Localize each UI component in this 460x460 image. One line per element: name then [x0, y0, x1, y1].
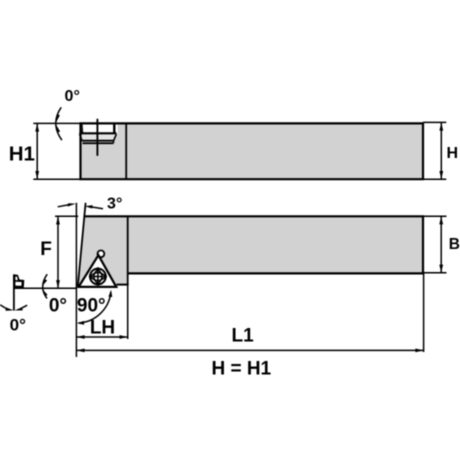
insert chamfer tick left — [81, 125, 84, 133]
stick-out icon: inner notch — [15, 277, 17, 281]
clamp screw: horizontal lens — [90, 272, 106, 280]
3 deg left arrow — [68, 203, 76, 206]
L1 arrow left — [76, 349, 84, 353]
3 deg right arrow — [85, 205, 93, 208]
LH arrow right — [120, 335, 128, 339]
insert chamfer tick right — [113, 125, 115, 133]
F arrow down — [56, 280, 60, 288]
LH arrow left — [76, 335, 84, 339]
head body — [78, 216, 128, 286]
pocket floor line — [83, 142, 114, 144]
B top extension line — [423, 215, 447, 217]
svg-text:0°: 0° — [49, 295, 67, 316]
svg-text:B: B — [449, 236, 460, 253]
90 deg arrow at left end — [77, 321, 84, 325]
head bottom edge — [117, 284, 129, 286]
clamp screw: vertical lens — [94, 269, 102, 283]
tip radius circle — [98, 250, 105, 257]
B dimension line — [440, 216, 442, 273]
centerline of insert screw — [96, 119, 98, 156]
svg-text:L1: L1 — [232, 326, 255, 347]
tip vertical extension line — [75, 216, 77, 357]
head/shank divider line — [125, 123, 127, 179]
H dimension line — [440, 122, 442, 179]
H arrow up — [439, 122, 443, 130]
tip reference line (thin, to the left) — [14, 287, 77, 289]
bar outline — [81, 123, 424, 179]
svg-text:H1: H1 — [9, 143, 35, 166]
insert pocket white area — [79, 124, 117, 143]
svg-text:0°: 0° — [65, 88, 80, 105]
shank outline — [84, 216, 423, 273]
H1 dimension: top extension line — [33, 122, 80, 124]
L1 dimension line — [76, 349, 423, 351]
svg-text:3°: 3° — [107, 196, 122, 213]
H dimension: top extension line — [423, 121, 446, 123]
H arrow down — [439, 171, 443, 179]
stick-out icon: left arrow — [5, 308, 13, 311]
90 deg arrow at top — [109, 290, 113, 297]
clamp screw: horizontal axis — [89, 276, 107, 278]
insert side view: right side — [114, 124, 116, 134]
H1 dimension: bottom extension line — [33, 178, 80, 180]
H1 dimension line — [36, 123, 38, 179]
head front (slanted) edge — [78, 203, 86, 287]
0 deg arc — [56, 107, 62, 140]
shank body — [128, 216, 423, 273]
shim right slant — [114, 134, 117, 141]
0 deg arc arrow upper — [43, 279, 47, 285]
0 deg arc arrow lower — [56, 125, 60, 133]
stick-out icon: right arrow — [15, 307, 23, 310]
insert (triangle) — [79, 255, 117, 287]
svg-text:0°: 0° — [10, 316, 26, 335]
clamp screw: vertical axis — [97, 267, 99, 286]
F dimension line — [57, 216, 59, 288]
head end / divider — [127, 216, 129, 285]
svg-text:90°: 90° — [77, 296, 106, 317]
pocket floor right connector — [113, 141, 115, 144]
3 deg left extension (vertical ref) — [75, 203, 77, 217]
0 deg (inclination) arc — [43, 274, 48, 298]
L1 arrow right — [415, 349, 423, 353]
H dimension: bottom extension line — [423, 178, 446, 180]
3 deg left leader — [58, 205, 70, 207]
clamp screw: outer circle — [90, 269, 106, 285]
H1 arrow down — [35, 171, 39, 179]
stick-out icon: profile shape — [14, 274, 25, 288]
stick-out icon: stem — [13, 274, 15, 310]
stick-out icon: right leader — [22, 305, 28, 308]
shim bottom line — [82, 140, 114, 142]
stick-out icon: left leader — [0, 305, 7, 309]
holder bar body (side view) — [81, 123, 424, 179]
0 deg arc arrow lower — [43, 290, 48, 297]
svg-text:H = H1: H = H1 — [211, 359, 271, 380]
90 deg arc — [79, 292, 111, 323]
H1 arrow up — [35, 123, 39, 131]
svg-text:LH: LH — [90, 317, 115, 338]
B arrow down — [439, 265, 443, 273]
F top extension line — [55, 215, 78, 217]
svg-text:H: H — [447, 145, 459, 162]
F arrow up — [56, 216, 60, 224]
insert side view: left side — [80, 124, 81, 134]
insert bottom edge — [79, 132, 116, 134]
svg-text:F: F — [40, 239, 52, 260]
3 deg right leader — [91, 207, 103, 209]
0 deg arc arrow upper — [56, 114, 60, 123]
shim left slant — [80, 134, 82, 141]
LH dimension line — [76, 336, 127, 338]
B bottom extension line — [423, 272, 447, 274]
L1 right extension line — [423, 273, 425, 352]
LH right extension line — [127, 286, 129, 340]
B arrow up — [439, 216, 443, 224]
